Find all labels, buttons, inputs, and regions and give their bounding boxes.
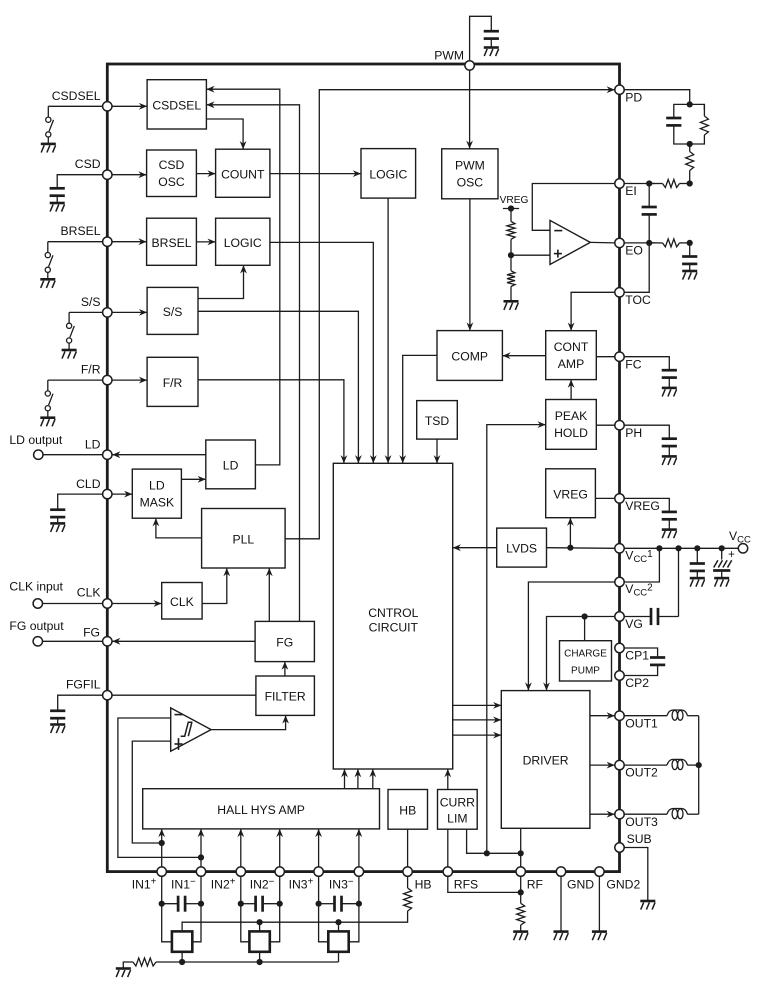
wire PEAK HOLD to PH pin <box>596 424 615 426</box>
svg-text:OUT2: OUT2 <box>625 766 658 780</box>
node PD network top <box>687 101 693 107</box>
switch at S/S <box>68 312 70 323</box>
wire RF sense to PEAK HOLD <box>487 425 546 854</box>
block VREG <box>546 469 596 518</box>
wire VCC1 to VCC terminal <box>624 547 738 549</box>
svg-text:VREG: VREG <box>625 499 660 513</box>
node VCC1 branch 3 <box>694 545 700 551</box>
wire PWM OSC to COMP <box>469 199 471 331</box>
block CSDSEL <box>147 80 206 129</box>
wire FGFIL pin to FILTER block <box>107 694 256 696</box>
pin GND2 (bottom) <box>595 867 604 876</box>
svg-text:LD: LD <box>85 437 101 451</box>
capacitor in PD network <box>666 117 681 120</box>
wire DRIVER to OUT2 <box>590 764 615 766</box>
wire PEAK HOLD to CONT AMP <box>570 380 572 400</box>
capacitor at VREG <box>662 511 677 514</box>
wire CURR LIM to control circuit <box>447 769 449 790</box>
capacitor at CSD <box>50 187 65 190</box>
wire control circuit to DRIVER 1 <box>453 704 502 706</box>
svg-text:GND2: GND2 <box>606 877 640 891</box>
wire F/R to control circuit <box>198 380 344 464</box>
terminal CLK input <box>33 599 42 608</box>
svg-text:RFS: RFS <box>454 877 478 891</box>
wire IN line 1 to HALL HYS AMP <box>161 829 163 867</box>
node VCC1 branch 2 <box>675 545 681 551</box>
svg-text:PUMP: PUMP <box>571 665 600 676</box>
hall element H2 <box>249 931 269 951</box>
block LOGIC U3 <box>361 149 416 199</box>
wire IN line 2 to HALL HYS AMP <box>200 829 202 867</box>
wire RFS to RF resistor node <box>448 876 521 892</box>
wire control circuit to DRIVER 3 <box>453 734 502 736</box>
svg-text:F/R: F/R <box>81 363 101 377</box>
capacitor at PWM <box>484 30 499 33</box>
wire IN1+ down to hall element <box>162 876 172 942</box>
wire FGFIL pin to capacitor <box>58 695 108 710</box>
inductor L3 <box>667 809 688 815</box>
wire CLK to PLL <box>202 568 227 604</box>
block LOGIC U4 <box>216 218 270 265</box>
wire PLL to LD MASK <box>156 518 202 538</box>
block PEAK HOLD <box>546 400 597 450</box>
wire S/S to LOGIC2 <box>198 265 244 298</box>
node PD network bottom <box>687 141 693 147</box>
block TSD <box>417 401 458 440</box>
pin EO <box>615 238 624 247</box>
wire CLK input terminal to CLK pin <box>43 603 103 605</box>
wire OUT1 to coil <box>624 715 667 717</box>
wire CLD pin to LD MASK block <box>107 493 132 495</box>
node RF sense junction <box>484 850 490 856</box>
wire LD block to CSDSEL input 1 <box>206 89 279 465</box>
wire CLK pin to CLK block <box>107 603 161 605</box>
svg-text:CP1: CP1 <box>625 649 649 663</box>
wire HALL HYS AMP to control circuit 1 <box>344 769 346 789</box>
svg-text:LOGIC: LOGIC <box>369 167 407 181</box>
wire bias to hall 3 <box>338 922 340 931</box>
svg-text:VREG: VREG <box>500 195 529 206</box>
ground at FC capacitor <box>662 387 677 390</box>
block PWM OSC <box>442 149 498 199</box>
svg-text:HOLD: HOLD <box>554 426 588 440</box>
wire node to VREG block <box>569 518 571 548</box>
svg-text:VREG: VREG <box>553 487 588 501</box>
wire CSDSEL pin to CSDSEL block <box>107 105 147 107</box>
svg-text:OUT3: OUT3 <box>625 815 658 829</box>
wire FC to external capacitor <box>624 357 669 370</box>
pin TOC <box>615 288 624 297</box>
svg-text:HB: HB <box>415 877 432 891</box>
node on IN1+ line <box>159 840 165 846</box>
block CONT AMP <box>546 331 597 380</box>
ground at hall common resistor <box>116 967 131 970</box>
wire FG block to FG pin <box>112 640 255 642</box>
capacitor VCC1 bypass <box>696 548 698 562</box>
wire IN2+ down to hall element <box>241 876 250 942</box>
svg-text:FC: FC <box>625 357 641 371</box>
wire CURR LIM to RF node <box>467 829 521 853</box>
svg-text:GND: GND <box>567 877 594 891</box>
svg-text:CHARGE: CHARGE <box>564 649 607 660</box>
pin OUT1 <box>615 711 624 720</box>
wire hall common line <box>182 961 338 963</box>
wire SUB to ground <box>624 848 648 901</box>
pin S/S <box>103 308 112 317</box>
wire IN line 4 to HALL HYS AMP <box>279 829 281 867</box>
wire comparator to FILTER <box>211 715 286 729</box>
node IN1- capacitor <box>198 901 204 907</box>
wire HB pin to resistor <box>407 876 409 888</box>
wire COMP to control circuit <box>403 355 437 463</box>
svg-text:IN2+: IN2+ <box>211 877 236 892</box>
wire LD MASK to LD <box>181 478 205 480</box>
capacitor at CLD <box>50 508 65 511</box>
svg-text:VG: VG <box>625 617 643 631</box>
node IN3- capacitor <box>356 901 362 907</box>
wire DRIVER to OUT3 <box>590 813 615 815</box>
wire F/R pin to F/R block <box>107 379 147 381</box>
block HALL HYS AMP <box>143 789 380 829</box>
node RF resistor top <box>518 889 524 895</box>
hall element H1 <box>172 931 192 951</box>
pin VG <box>615 612 624 621</box>
svg-text:DRIVER: DRIVER <box>523 753 569 767</box>
node on IN1- line <box>198 854 204 860</box>
svg-text:CLK input: CLK input <box>9 579 63 593</box>
block CHARGE PUMP <box>560 641 612 681</box>
svg-text:LD: LD <box>149 478 165 492</box>
node hall bias 2 <box>257 919 263 925</box>
wire FG block to CSDSEL input 2 <box>206 105 299 622</box>
svg-text:COUNT: COUNT <box>221 167 265 181</box>
block CLK <box>162 583 202 620</box>
wire CSD pin to CSD OSC block <box>107 174 146 176</box>
pin EI <box>615 179 624 188</box>
svg-text:CSD: CSD <box>75 157 101 171</box>
wire bias to hall 2 <box>259 922 261 931</box>
resistor at RF <box>517 903 525 925</box>
svg-text:CLK: CLK <box>170 595 194 609</box>
svg-text:CLD: CLD <box>76 477 101 491</box>
terminal VCC <box>738 544 747 553</box>
wire comparator plus input from IN1+ <box>132 741 170 843</box>
wire VCC2 pin to DRIVER <box>528 582 614 691</box>
wire CONT AMP to FC pin <box>596 356 615 358</box>
svg-text:OSC: OSC <box>158 175 185 189</box>
node on LVDS-VCC1 wire <box>567 545 573 551</box>
pin CSDSEL <box>103 102 112 111</box>
ground at GND2 <box>592 930 607 933</box>
wire COUNT to LOGIC <box>270 173 361 175</box>
pin FG <box>103 637 112 646</box>
svg-text:FGFIL: FGFIL <box>66 678 101 692</box>
node VCC1 branch 1 <box>656 545 662 551</box>
svg-text:COMP: COMP <box>451 350 488 364</box>
pin VCC1 <box>615 544 624 553</box>
terminal LD output <box>34 450 43 459</box>
wire IN1- down to hall element <box>192 876 201 942</box>
wire CSD OSC to COUNT <box>196 173 215 175</box>
node divider mid <box>508 252 514 258</box>
svg-text:CP2: CP2 <box>625 676 649 690</box>
resistor EI row <box>649 183 662 185</box>
node IN2+ capacitor <box>238 901 244 907</box>
node IN3+ capacitor <box>316 901 322 907</box>
ground at FGFIL capacitor <box>50 723 65 726</box>
wire IN3- down to hall element <box>349 876 359 942</box>
capacitor at FGFIL <box>50 709 65 712</box>
svg-text:FG: FG <box>83 625 100 639</box>
wire IN3+ down to hall element <box>319 876 329 942</box>
wire CSDSEL to COUNT <box>206 119 243 149</box>
wire F/R pin to switch <box>48 379 108 381</box>
pin CP1 <box>615 643 624 652</box>
inductor L2 <box>667 759 688 765</box>
wire EI feedback to op-amp minus input <box>532 184 615 231</box>
pin VREG <box>615 494 624 503</box>
pin HB (bottom) <box>403 867 412 876</box>
capacitor EO to ground <box>689 243 691 256</box>
pin IN2+ (bottom) <box>236 867 245 876</box>
block LD <box>206 440 256 489</box>
wire VG pin to DRIVER <box>547 617 615 691</box>
switch at BRSEL <box>47 242 49 253</box>
pin RF (bottom) <box>516 867 525 876</box>
wire RFS to CURR LIM <box>447 829 449 867</box>
ground at EO capacitor <box>682 270 697 273</box>
wire CP1 to CP capacitor <box>624 648 657 657</box>
wire PD to external RC <box>624 90 689 105</box>
svg-text:HB: HB <box>399 803 416 817</box>
wire EO to external node <box>624 242 655 244</box>
wire hall element H2 to common <box>259 952 261 962</box>
wire IN2- down to hall element <box>270 876 280 942</box>
wire LOGIC to control circuit <box>387 198 389 463</box>
wire CP capacitor to CP2 <box>624 665 657 675</box>
svg-text:TSD: TSD <box>425 414 450 428</box>
svg-text:VCC2: VCC2 <box>625 582 653 599</box>
pin IN3− (bottom) <box>354 867 363 876</box>
resistor in PD network <box>703 104 705 116</box>
wire FILTER to FG <box>284 662 286 676</box>
svg-text:LVDS: LVDS <box>506 542 537 556</box>
svg-text:PEAK: PEAK <box>555 409 588 423</box>
pin IN1+ (bottom) <box>157 867 166 876</box>
capacitor between EI and EO <box>648 184 650 207</box>
wire RF pin to resistor <box>520 876 522 903</box>
wire comparator minus input from IN1- <box>118 718 201 857</box>
pin FGFIL <box>103 691 112 700</box>
svg-text:S/S: S/S <box>81 295 101 309</box>
wire HB block to HB pin <box>407 829 409 867</box>
pin BRSEL <box>103 237 112 246</box>
wire CLD pin to capacitor <box>58 494 108 509</box>
svg-text:F/R: F/R <box>163 376 183 390</box>
node hall common 2 <box>257 959 263 965</box>
ground at divider <box>504 300 519 303</box>
pin SUB <box>615 843 624 852</box>
wire LVDS to control circuit <box>453 547 497 549</box>
block COMP <box>437 331 502 381</box>
wire DRIVER to OUT1 <box>590 715 615 717</box>
wire PWM to external capacitor <box>470 16 492 64</box>
pin CLK <box>103 599 112 608</box>
svg-text:S/S: S/S <box>163 305 183 319</box>
wire VCC1 to VCC2 loop <box>624 548 659 582</box>
resistor EO row <box>649 242 662 244</box>
svg-text:TOC: TOC <box>625 293 651 307</box>
svg-text:+: + <box>728 549 735 561</box>
wire S/S pin to S/S block <box>107 311 147 313</box>
svg-text:LD: LD <box>223 458 239 472</box>
wire VG capacitor <box>624 616 651 618</box>
wire GND pin to ground <box>560 876 562 931</box>
wire EO node to TOC <box>624 243 649 292</box>
wire S/S pin to switch <box>69 311 107 313</box>
wire BRSEL pin to BRSEL block <box>107 241 146 243</box>
capacitor across IN2 <box>241 903 256 905</box>
block HB <box>388 790 428 830</box>
wire S/S to control circuit <box>198 311 358 463</box>
block CURR LIM <box>438 790 478 830</box>
pin PWM <box>465 61 474 70</box>
wire GND2 pin to ground <box>598 876 600 931</box>
svg-text:CURR: CURR <box>440 795 475 809</box>
node on VG wire <box>582 613 588 619</box>
capacitor at VG <box>650 608 653 625</box>
wire PLL to PD pin <box>285 90 615 539</box>
wire LD block to LD pin <box>112 454 206 456</box>
pin OUT3 <box>615 810 624 819</box>
ground at RF resistor <box>513 930 528 933</box>
wire OUT3 to coil <box>624 813 667 815</box>
svg-text:RF: RF <box>527 877 543 891</box>
block BRSEL <box>147 218 197 265</box>
wire HALL HYS AMP to control circuit 3 <box>372 769 374 789</box>
node coil common <box>696 762 702 768</box>
svg-text:VCC1: VCC1 <box>625 548 653 565</box>
pin PH <box>615 421 624 430</box>
switch at CSDSEL <box>47 106 49 117</box>
wire IN line 5 to HALL HYS AMP <box>318 829 320 867</box>
pin FC <box>615 352 624 361</box>
pin PD <box>615 85 624 94</box>
wire VREG block to VREG pin <box>595 497 614 499</box>
node VCC1 branch 4 <box>719 545 725 551</box>
capacitor CP1-CP2 <box>650 656 665 659</box>
IC boundary <box>107 64 619 872</box>
hall element H3 <box>328 931 348 951</box>
node EO right <box>687 240 693 246</box>
wire op-amp output to EO pin <box>590 241 615 244</box>
ground at PWM capacitor <box>484 46 499 49</box>
block CSD OSC <box>147 150 197 197</box>
inductor L1 <box>667 710 688 716</box>
svg-text:PH: PH <box>625 426 642 440</box>
wire IN line 6 to HALL HYS AMP <box>358 829 360 867</box>
svg-text:CSDSEL: CSDSEL <box>52 89 101 103</box>
ground at SUB <box>640 900 655 903</box>
polarized capacitor VCC1 bulk <box>721 548 723 559</box>
node EI right <box>687 180 693 186</box>
pin GND (bottom) <box>556 867 565 876</box>
wire FG pin to FG output terminal <box>43 640 103 642</box>
wire node to CHARGE PUMP <box>584 617 586 641</box>
wire CSD pin to capacitor <box>57 175 107 188</box>
wire divider to op-amp plus input <box>511 254 550 256</box>
wire LOGIC2 to control circuit <box>270 242 373 463</box>
wire hall element H1 to common <box>181 952 183 962</box>
wire IN line 3 to HALL HYS AMP <box>240 829 242 867</box>
svg-text:VCC: VCC <box>729 529 751 546</box>
svg-text:LD output: LD output <box>9 433 62 447</box>
comparator U2 (hysteresis) <box>171 708 211 751</box>
capacitor across IN3 <box>319 903 335 905</box>
wire VREG to external capacitor <box>624 498 669 511</box>
pin CSD <box>103 170 112 179</box>
ground at CSD capacitor <box>50 202 65 205</box>
wire OUT2 to coil <box>624 764 667 766</box>
wire EI to external node <box>624 183 655 185</box>
svg-text:CSDSEL: CSDSEL <box>152 98 201 112</box>
switch at F/R <box>47 380 49 391</box>
wire HALL HYS AMP to control circuit 2 <box>357 769 359 789</box>
node EO left <box>646 240 652 246</box>
pin CP2 <box>615 671 624 680</box>
block FILTER <box>256 676 315 715</box>
wire TOC to CONT AMP <box>571 292 615 330</box>
svg-text:EI: EI <box>625 184 637 198</box>
block COUNT <box>216 149 270 197</box>
svg-text:PWM: PWM <box>455 159 485 173</box>
ground at bulk capacitor <box>714 577 729 580</box>
svg-text:OSC: OSC <box>457 176 484 190</box>
resistor at HB <box>404 888 412 911</box>
node on DRIVER-RF wire <box>518 850 524 856</box>
block S/S <box>147 287 198 334</box>
pin RFS (bottom) <box>443 867 452 876</box>
svg-text:IN1−: IN1− <box>171 877 196 892</box>
svg-text:CIRCUIT: CIRCUIT <box>369 620 419 634</box>
capacitor at FC <box>662 369 677 372</box>
wire HB resistor to hall bias line <box>182 911 408 931</box>
svg-text:IN3+: IN3+ <box>289 877 314 892</box>
block LVDS <box>497 528 547 567</box>
wire TSD to control circuit <box>436 439 438 463</box>
ground at CLD capacitor <box>50 522 65 525</box>
node VREG divider top <box>503 208 519 210</box>
svg-text:PWM: PWM <box>434 49 464 63</box>
block PLL <box>202 509 286 569</box>
node EI left <box>646 180 652 186</box>
svg-text:PD: PD <box>625 90 642 104</box>
block F/R <box>147 357 198 406</box>
svg-text:CNTROL: CNTROL <box>368 606 418 620</box>
wire control circuit to DRIVER 2 <box>453 719 502 721</box>
pin OUT2 <box>615 760 624 769</box>
wire VCC1 to VG capacitor <box>678 548 680 616</box>
node hall common 1 <box>179 959 185 965</box>
pin IN1− (bottom) <box>196 867 205 876</box>
wire CONT AMP to COMP <box>502 355 545 357</box>
svg-text:BRSEL: BRSEL <box>152 236 192 250</box>
svg-text:SUB: SUB <box>627 832 652 846</box>
resistor hall common to ground <box>156 961 182 963</box>
svg-text:MASK: MASK <box>140 495 175 509</box>
wire PWM to PWM OSC <box>469 64 471 149</box>
pin CLD <box>103 489 112 498</box>
